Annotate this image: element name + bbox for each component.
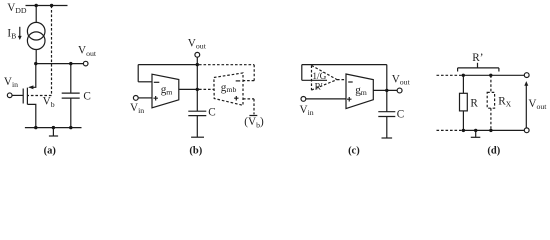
svg-text:Vin: Vin — [300, 104, 314, 117]
svg-text:Vout: Vout — [528, 98, 547, 111]
svg-text:(Vb): (Vb) — [244, 116, 264, 129]
svg-text:gm: gm — [161, 84, 173, 97]
svg-text:(a): (a) — [44, 145, 57, 156]
svg-text:(c): (c) — [348, 145, 360, 156]
svg-text:C: C — [83, 90, 90, 102]
svg-text:RX: RX — [498, 96, 511, 109]
svg-text:gmb: gmb — [221, 82, 237, 94]
svg-text:R: R — [470, 98, 478, 110]
svg-text:Vout: Vout — [78, 45, 97, 58]
svg-text:IB: IB — [7, 27, 16, 40]
svg-text:R’: R’ — [472, 52, 483, 64]
svg-text:1/G: 1/G — [312, 72, 326, 82]
svg-text:C: C — [208, 107, 215, 119]
svg-text:Vin: Vin — [4, 76, 18, 89]
svg-text:C: C — [397, 109, 404, 121]
svg-text:(b): (b) — [189, 145, 202, 156]
svg-text:Vout: Vout — [188, 37, 207, 50]
svg-text:Vout: Vout — [392, 73, 411, 86]
svg-text:R′: R′ — [315, 83, 323, 93]
svg-text:(d): (d) — [487, 145, 500, 156]
svg-text:Vin: Vin — [130, 102, 144, 115]
svg-text:Vb: Vb — [43, 96, 55, 109]
svg-text:gm: gm — [355, 84, 367, 97]
svg-text:VDD: VDD — [7, 2, 27, 15]
